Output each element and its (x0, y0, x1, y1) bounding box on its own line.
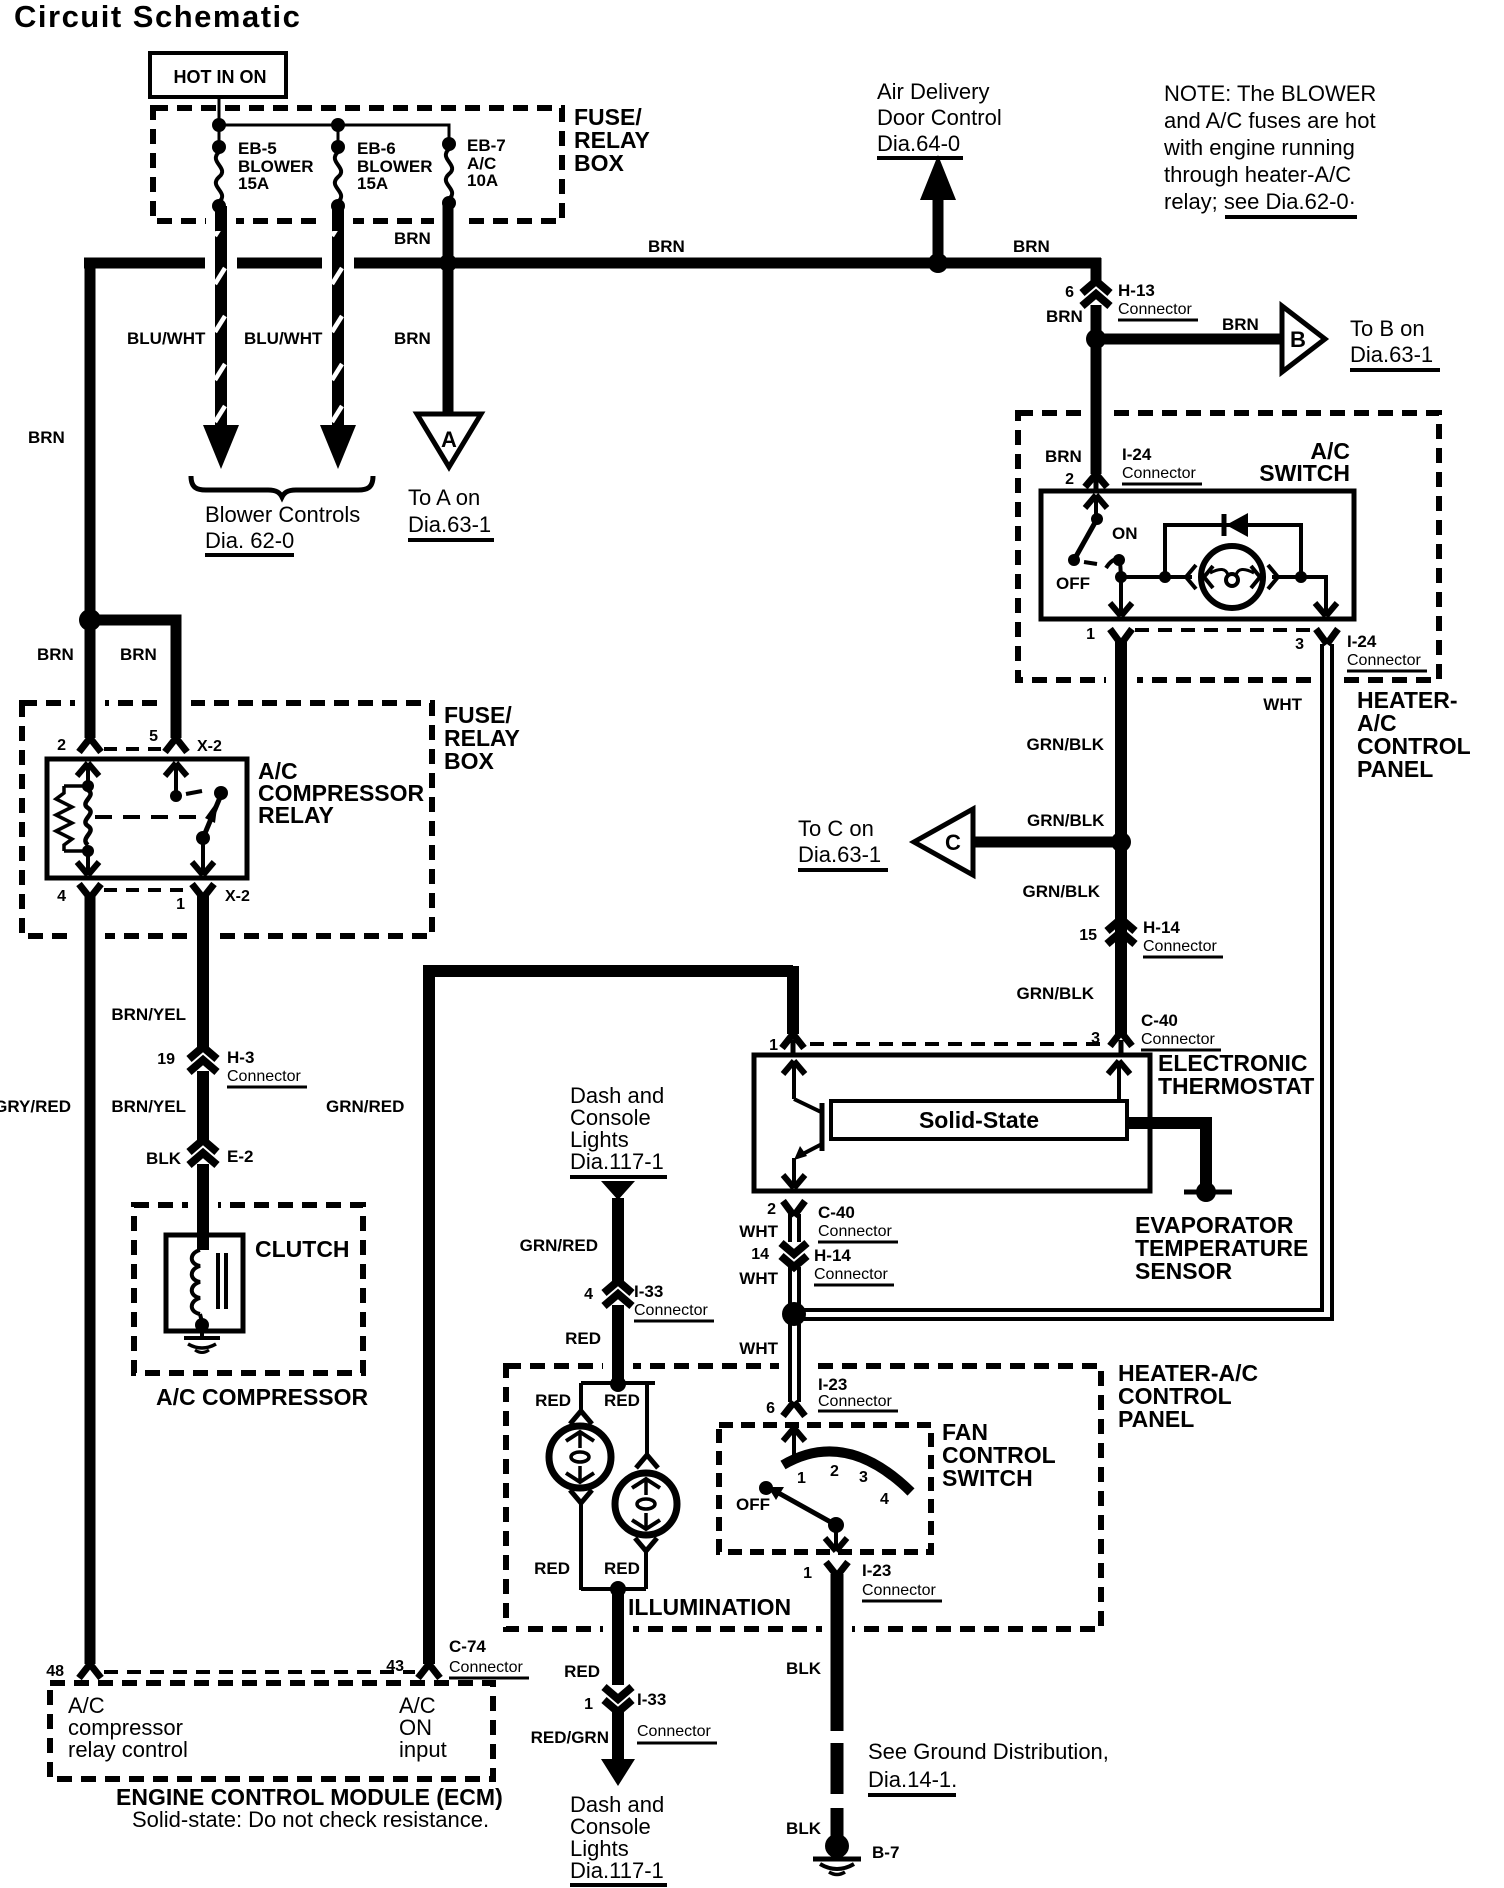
clutch box (166, 1235, 243, 1331)
svg-text:BRN/YEL: BRN/YEL (111, 1097, 186, 1116)
label FUSE/RELAY BOX (2) (444, 702, 520, 774)
dashed connector line pins 4-1 (104, 888, 188, 892)
svg-text:1: 1 (584, 1696, 593, 1713)
svg-text:X-2: X-2 (197, 738, 222, 755)
svg-text:WHT: WHT (739, 1222, 778, 1241)
ECM pin 48 fork (79, 1664, 101, 1678)
svg-text:6: 6 (766, 1400, 775, 1417)
wire BRN bus corner down to H-13 (1091, 258, 1102, 284)
wire BLK fan switch to ground (segmented) (831, 1574, 844, 1836)
dashed connector line pins 2-5 (104, 747, 163, 751)
off-page triangle C (914, 809, 973, 875)
dashed connector line thermostat pins 1-3 (810, 1042, 1100, 1046)
svg-text:GRY/RED: GRY/RED (0, 1097, 71, 1116)
wire GRY/RED relay pin4 to ECM pin 48 (85, 896, 96, 1664)
relay pin 5 fork (165, 738, 187, 752)
svg-text:THERMOSTAT: THERMOSTAT (1158, 1073, 1314, 1099)
fan switch lever (768, 1487, 836, 1525)
relay coil L1 (85, 790, 90, 845)
illumination lamp 1 (549, 1426, 611, 1488)
node dot WHT junction (782, 1302, 806, 1326)
svg-text:BRN: BRN (120, 645, 157, 664)
svg-text:EB-6: EB-6 (357, 139, 396, 158)
svg-text:SENSOR: SENSOR (1135, 1258, 1233, 1284)
svg-text:Connector: Connector (818, 1223, 892, 1240)
A/C switch dashed box (1018, 413, 1439, 680)
wire GRN/BLK from A/C switch pin 1 (1115, 642, 1127, 1034)
label FAN CONTROL SWITCH (942, 1419, 1056, 1491)
label I-24 Connector (bottom) (1347, 632, 1427, 671)
svg-text:Connector: Connector (1118, 301, 1192, 318)
wire pin3 exit with arrow (1301, 577, 1337, 616)
svg-text:H-13: H-13 (1118, 281, 1155, 300)
svg-text:RED: RED (565, 1329, 601, 1348)
clutch ground node (195, 1314, 209, 1332)
svg-text:through heater-A/C: through heater-A/C (1164, 162, 1351, 187)
svg-text:14: 14 (751, 1246, 769, 1263)
relay common dot (196, 831, 210, 845)
svg-text:BLK: BLK (786, 1819, 822, 1838)
svg-text:B-7: B-7 (872, 1843, 899, 1862)
label HEATER-A/C CONTROL PANEL (top) (1357, 687, 1471, 782)
node dot diode left (1159, 571, 1171, 583)
switch arm entry arrow (1085, 495, 1107, 519)
lamp contact right (1268, 565, 1301, 589)
A/C compressor dashed box (134, 1205, 363, 1373)
svg-text:Connector: Connector (1141, 1031, 1215, 1048)
thermostat pin 2 fork (783, 1201, 805, 1216)
wire to lamp left node (1121, 575, 1165, 579)
relay coil exit arrow (77, 851, 99, 875)
label H-13 Connector (1118, 281, 1198, 320)
label C-74 Connector (449, 1637, 529, 1678)
relay pin 2 fork (79, 738, 101, 752)
svg-text:I-23: I-23 (862, 1561, 891, 1580)
relay coil entry arrow (77, 763, 99, 786)
svg-text:with engine running: with engine running (1163, 135, 1355, 160)
wire pin3 to solid-state (thin, arrow up) (1108, 1061, 1130, 1101)
svg-text:Dia. 62-0: Dia. 62-0 (205, 528, 294, 553)
svg-text:EB-7: EB-7 (467, 136, 506, 155)
label H-14 Connector (lower) (814, 1246, 894, 1285)
lamp 2 contact bottom (635, 1538, 657, 1551)
svg-text:BRN: BRN (37, 645, 74, 664)
node dot illumination bottom (610, 1581, 626, 1597)
svg-text:I-24: I-24 (1347, 632, 1377, 651)
svg-text:RELAY: RELAY (258, 802, 334, 828)
svg-text:BOX: BOX (574, 150, 625, 176)
relay pin 1 fork (192, 884, 214, 898)
connector H-3 (inline) (189, 1047, 217, 1072)
wire RED/GRN with arrow to dash lights (601, 1711, 635, 1786)
relay armature (203, 795, 221, 838)
svg-text:Connector: Connector (637, 1723, 711, 1740)
svg-text:Connector: Connector (862, 1582, 936, 1599)
fuse/relay box 2 (dashed) (22, 703, 432, 936)
node dot fuse bus at EB-5 (212, 118, 226, 132)
heater-A/C control panel dashed box (bottom) (506, 1366, 1101, 1629)
svg-text:I-33: I-33 (637, 1690, 666, 1709)
svg-text:GRN/RED: GRN/RED (326, 1097, 404, 1116)
wire BRN/YEL relay pin1 to H-3 (197, 896, 209, 1048)
node dot branch to B (1086, 329, 1106, 349)
thermostat pin 1 fork (782, 1034, 804, 1056)
svg-text:GRN/RED: GRN/RED (520, 1236, 598, 1255)
arrow from Dia.117-1 (601, 1181, 635, 1200)
svg-text:RED: RED (564, 1662, 600, 1681)
svg-text:C-40: C-40 (1141, 1011, 1178, 1030)
svg-text:input: input (399, 1737, 447, 1762)
label Dash and Console Lights Dia.117-1 (bottom) (570, 1792, 667, 1885)
lamp 1 contact top (570, 1411, 592, 1424)
svg-text:15A: 15A (357, 174, 388, 193)
svg-text:4: 4 (880, 1491, 889, 1508)
svg-text:Dia.14-1.: Dia.14-1. (868, 1767, 957, 1792)
indicator lamp (1201, 546, 1263, 608)
svg-text:BOX: BOX (444, 748, 495, 774)
connector E-2 (inline) (189, 1140, 217, 1165)
label H-3 Connector (227, 1048, 307, 1087)
clutch plates (218, 1253, 226, 1309)
svg-text:2: 2 (830, 1463, 839, 1480)
fan switch arc (783, 1451, 911, 1492)
svg-text:BLK: BLK (146, 1149, 182, 1168)
svg-text:OFF: OFF (736, 1495, 770, 1514)
wire pin1 exit with arrow (1110, 577, 1132, 616)
svg-text:2: 2 (767, 1201, 776, 1218)
svg-text:Dia.63-1: Dia.63-1 (408, 512, 491, 537)
svg-text:2: 2 (57, 737, 66, 754)
wire from HOT IN ON to fuse bus (218, 97, 221, 125)
label See Ground Distribution Dia.14-1 (868, 1739, 1109, 1795)
node dot fuse bus at EB-6 (331, 118, 345, 132)
svg-text:Blower Controls: Blower Controls (205, 502, 360, 527)
svg-text:To B on: To B on (1350, 316, 1425, 341)
svg-text:BRN: BRN (1045, 447, 1082, 466)
node dot illumination top (610, 1376, 626, 1392)
lamp contact left (1165, 565, 1196, 589)
label A/C ON input (399, 1693, 447, 1762)
svg-text:15: 15 (1079, 927, 1097, 944)
label H-14 Connector (1143, 918, 1223, 957)
svg-text:Dia.64-0: Dia.64-0 (877, 131, 960, 156)
wire ON contact down (1120, 560, 1121, 577)
A/C switch inner box (1041, 491, 1354, 619)
svg-text:RED: RED (604, 1559, 640, 1578)
connector H-13 (inline) (1082, 281, 1110, 306)
wire WHT double line horizontal to right riser (794, 1310, 1334, 1319)
illumination loop wires (top) (581, 1383, 655, 1456)
dashed link OFF to ON contact (1084, 562, 1097, 564)
wire RED illumination exit (612, 1589, 624, 1685)
svg-text:WHT: WHT (1263, 695, 1302, 714)
label FUSE/RELAY BOX (574, 104, 650, 176)
wire BLK E-2 to clutch (197, 1164, 209, 1250)
svg-text:BRN: BRN (394, 229, 431, 248)
wire BRN/YEL H-3 to E-2 (197, 1071, 209, 1141)
svg-text:10A: 10A (467, 171, 498, 190)
label Blower Controls Dia. 62-0 (205, 502, 360, 555)
pin 2 fork (1085, 474, 1107, 491)
label I-23 Connector (bottom) (862, 1561, 942, 1601)
node dot bus at air delivery (928, 253, 948, 273)
ON contact dot (1113, 554, 1125, 566)
lamp 1 contact bottom (570, 1490, 592, 1503)
svg-text:NOTE: The BLOWER: NOTE: The BLOWER (1164, 81, 1376, 106)
label To B on Dia.63-1 (1350, 316, 1440, 370)
svg-text:RED: RED (604, 1391, 640, 1410)
dashed connector line pins 48-43 (104, 1670, 415, 1674)
wire BRN from EB-7 to A (443, 263, 454, 414)
svg-text:Door Control: Door Control (877, 105, 1002, 130)
svg-text:1: 1 (769, 1037, 778, 1054)
svg-text:BRN: BRN (648, 237, 685, 256)
wire EB-6 top (337, 125, 340, 150)
node dot BRN left junction (79, 609, 101, 631)
label HEATER-A/C CONTROL PANEL (bottom) (1118, 1360, 1258, 1432)
relay resistor R1 (56, 786, 88, 851)
wire WHT double line junction down to fan switch (790, 1324, 799, 1402)
wire BRN branch to relay pin 5 (90, 620, 176, 738)
svg-text:Dia.63-1: Dia.63-1 (1350, 342, 1433, 367)
svg-text:Connector: Connector (1143, 938, 1217, 955)
label C-40 Connector (pin3) (1141, 1011, 1221, 1050)
svg-text:BRN/YEL: BRN/YEL (111, 1005, 186, 1024)
wire BRN from H-13 to junction (1091, 305, 1102, 474)
label To A on Dia.63-1 (408, 485, 494, 540)
svg-text:19: 19 (157, 1051, 175, 1068)
label I-23 Connector (top) (818, 1375, 898, 1411)
svg-text:ON: ON (1112, 524, 1138, 543)
label Air Delivery Door Control Dia.64-0 (877, 79, 1002, 158)
wire GRN/RED to I-33 (612, 1198, 624, 1282)
svg-text:1: 1 (797, 1470, 806, 1487)
relay coil bottom node (82, 845, 94, 857)
label A/C SWITCH (1259, 438, 1350, 486)
svg-text:B: B (1290, 327, 1306, 352)
svg-text:I-24: I-24 (1122, 445, 1152, 464)
svg-text:Connector: Connector (449, 1659, 523, 1676)
wire WHT double line pin2 to H-14 (790, 1214, 799, 1242)
svg-text:PANEL: PANEL (1118, 1406, 1194, 1432)
svg-text:BRN: BRN (1046, 307, 1083, 326)
fuse EB-5 BLOWER 15A (212, 139, 314, 213)
svg-text:To C on: To C on (798, 816, 874, 841)
wire BRN to relay pin 2 (85, 620, 96, 738)
pin 3 fork (1316, 629, 1338, 644)
wire WHT double line H-14 to junction (790, 1267, 799, 1305)
label A/C compressor relay control (68, 1693, 188, 1762)
ground B-7 (813, 1834, 861, 1875)
svg-text:HOT IN ON: HOT IN ON (174, 67, 267, 87)
relay fixed contact dot (170, 790, 182, 802)
svg-text:GRN/BLK: GRN/BLK (1017, 984, 1095, 1003)
wire GRN/RED ECM pin 43 to thermostat pin 1 (423, 966, 793, 1664)
wire BRN left drop (85, 258, 96, 626)
svg-text:RED: RED (534, 1559, 570, 1578)
fan switch pin 1 fork (826, 1562, 848, 1576)
ground (clutch) (184, 1325, 220, 1353)
svg-text:Connector: Connector (1122, 465, 1196, 482)
node dot lamp branch (1115, 571, 1127, 583)
svg-text:I-23: I-23 (818, 1375, 847, 1394)
svg-text:Dia.63-1: Dia.63-1 (798, 842, 881, 867)
svg-text:Air Delivery: Air Delivery (877, 79, 989, 104)
wire branch to C (968, 837, 1121, 848)
svg-text:EB-5: EB-5 (238, 139, 277, 158)
connector I-33 (inline lower) (604, 1687, 632, 1712)
ON contact hook (1106, 559, 1121, 568)
wire BRN EB-7 to bus (443, 203, 454, 263)
svg-text:SWITCH: SWITCH (942, 1465, 1033, 1491)
svg-text:E-2: E-2 (227, 1147, 253, 1166)
svg-text:Connector: Connector (818, 1393, 892, 1410)
svg-text:ILLUMINATION: ILLUMINATION (628, 1594, 791, 1620)
svg-text:See Ground Distribution,: See Ground Distribution, (868, 1739, 1109, 1764)
relay contact dash (186, 791, 202, 794)
svg-text:BLU/WHT: BLU/WHT (244, 329, 323, 348)
diode D1 (1224, 513, 1248, 537)
svg-text:X-2: X-2 (225, 888, 250, 905)
dashed connector line pins 1-3 (1135, 628, 1310, 632)
dashed mechanical link (95, 815, 196, 819)
fan lever pivot dot (828, 1517, 844, 1533)
svg-text:BRN: BRN (28, 428, 65, 447)
fan switch exit arrow (825, 1525, 847, 1551)
svg-text:RED/GRN: RED/GRN (531, 1728, 609, 1747)
fan switch entry arrow (783, 1428, 805, 1460)
thermostat pin 3 fork (1110, 1032, 1132, 1056)
svg-text:relay; see Dia.62-0·: relay; see Dia.62-0· (1164, 189, 1356, 214)
wire RED I-33 to illumination (612, 1305, 624, 1384)
fuse EB-6 BLOWER 15A (331, 139, 433, 213)
svg-text:Circuit Schematic: Circuit Schematic (14, 0, 301, 34)
svg-text:48: 48 (46, 1663, 64, 1680)
svg-text:3: 3 (1295, 636, 1304, 653)
label Dash and Console Lights Dia.117-1 (top) (570, 1083, 667, 1177)
fuse bus (thin) (219, 125, 449, 143)
BRN bus (main horizontal) (84, 258, 1101, 269)
svg-text:BRN: BRN (394, 329, 431, 348)
lamp 2 contact top (636, 1455, 658, 1468)
label ELECTRONIC THERMOSTAT (1158, 1050, 1314, 1099)
svg-text:Connector: Connector (1347, 652, 1421, 669)
svg-text:Solid-state: Do not check resi: Solid-state: Do not check resistance. (132, 1807, 489, 1832)
svg-text:RED: RED (535, 1391, 571, 1410)
svg-text:Connector: Connector (227, 1068, 301, 1085)
clutch coil (192, 1250, 200, 1314)
brace under blower arrows (191, 476, 373, 497)
connector H-14 (inline on WHT) (781, 1243, 807, 1267)
svg-text:3: 3 (859, 1469, 868, 1486)
svg-text:Connector: Connector (814, 1266, 888, 1283)
node dot bus at EB-7 wire (439, 254, 457, 272)
connector H-14 (inline on GRN/BLK) (1107, 919, 1135, 944)
svg-text:6: 6 (1065, 284, 1074, 301)
wire to evaporator sensor (1127, 1123, 1206, 1187)
note text (1163, 81, 1376, 217)
label C-40 Connector (pin2) (818, 1203, 898, 1242)
label I-24 Connector (top) (1122, 445, 1202, 484)
relay switch exit arrow (192, 838, 214, 875)
svg-text:C: C (945, 830, 961, 855)
off-page triangle B (1282, 306, 1325, 372)
solid-state box (831, 1101, 1127, 1139)
svg-text:1: 1 (1086, 626, 1095, 643)
svg-text:1: 1 (176, 896, 185, 913)
svg-text:CLUTCH: CLUTCH (255, 1236, 350, 1262)
label I-33 Connector (lower) (637, 1690, 717, 1743)
svg-text:WHT: WHT (739, 1339, 778, 1358)
relay pin 4 fork (79, 884, 101, 898)
svg-text:and A/C fuses are hot: and A/C fuses are hot (1164, 108, 1376, 133)
svg-text:5: 5 (149, 728, 158, 745)
label EVAPORATOR TEMPERATURE SENSOR (1135, 1212, 1308, 1284)
HOT IN ON box (150, 53, 286, 97)
svg-text:OFF: OFF (1056, 574, 1090, 593)
svg-text:PANEL: PANEL (1357, 756, 1433, 782)
svg-text:To A on: To A on (408, 485, 480, 510)
wire crossing halos over dashed edges (75, 210, 1341, 1639)
svg-text:BLK: BLK (786, 1659, 822, 1678)
node dot diode right (1295, 571, 1307, 583)
fan switch pin 6 fork (783, 1402, 805, 1416)
svg-text:Dia.117-1: Dia.117-1 (570, 1858, 664, 1883)
svg-text:2: 2 (1065, 471, 1074, 488)
OFF contact dot (759, 1481, 773, 1495)
A/C compressor relay box (47, 759, 247, 878)
relay coil top node (82, 780, 94, 792)
svg-text:15A: 15A (238, 174, 269, 193)
connector I-33 (inline upper) (604, 1281, 632, 1306)
svg-text:C-40: C-40 (818, 1203, 855, 1222)
wire BRN branch to B (1096, 334, 1282, 345)
switch arm (to OFF) (1074, 519, 1097, 560)
relay armature top dot (214, 786, 228, 800)
label I-33 Connector (upper) (634, 1282, 714, 1321)
illumination lamp 2 (615, 1473, 677, 1535)
fuse/relay box (top) (153, 108, 562, 221)
wire lamp2 down + bottom loop (581, 1550, 646, 1589)
wire BLU/WHT from EB-6 (striped) with arrow to blower controls (320, 206, 356, 469)
evaporator temperature sensor (1184, 1182, 1232, 1202)
svg-text:H-14: H-14 (1143, 918, 1180, 937)
relay switch entry arrow (165, 763, 187, 792)
svg-text:Dia.117-1: Dia.117-1 (570, 1149, 664, 1174)
OFF contact dot (1068, 554, 1080, 566)
svg-text:4: 4 (57, 888, 66, 905)
off-page triangle A (417, 414, 481, 467)
svg-text:BRN: BRN (1222, 315, 1259, 334)
fan control switch dashed box (719, 1425, 931, 1552)
svg-text:1: 1 (803, 1565, 812, 1582)
svg-text:A/C COMPRESSOR: A/C COMPRESSOR (156, 1384, 369, 1410)
wire BRN up-arrow to Air Delivery Door Control (920, 155, 956, 263)
switch pivot dot (1091, 513, 1103, 525)
ECM dashed box (50, 1683, 493, 1779)
svg-text:GRN/BLK: GRN/BLK (1023, 882, 1101, 901)
svg-text:SWITCH: SWITCH (1259, 460, 1350, 486)
svg-text:I-33: I-33 (634, 1282, 663, 1301)
svg-text:WHT: WHT (739, 1269, 778, 1288)
label A/C COMPRESSOR RELAY (258, 758, 425, 828)
svg-text:A: A (441, 427, 457, 452)
svg-text:Solid-State: Solid-State (919, 1107, 1039, 1133)
svg-text:relay control: relay control (68, 1737, 188, 1762)
svg-text:GRN/BLK: GRN/BLK (1027, 735, 1105, 754)
svg-text:H-3: H-3 (227, 1048, 254, 1067)
fuse EB-7 A/C 10A (442, 136, 506, 210)
